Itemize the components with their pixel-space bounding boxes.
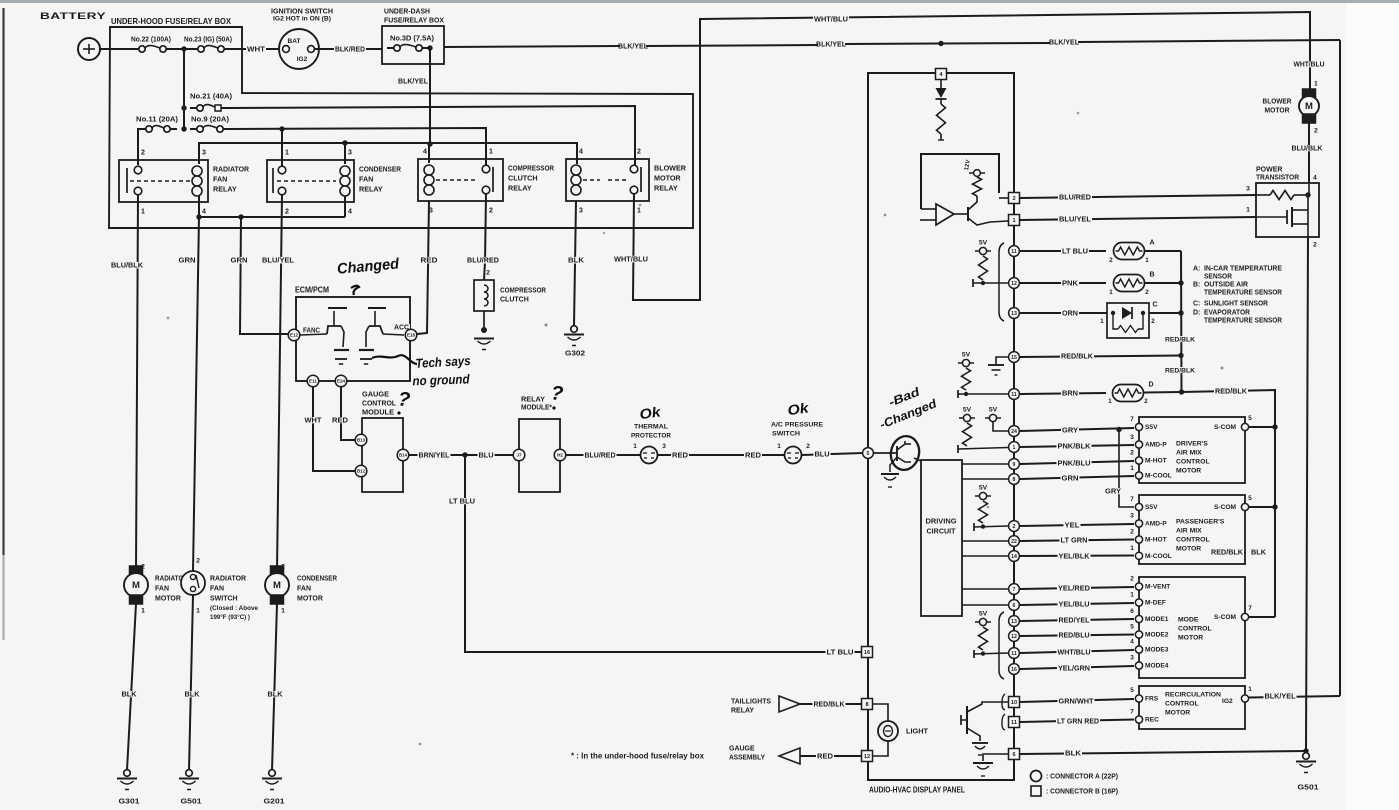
- svg-text:CLUTCH: CLUTCH: [508, 173, 538, 182]
- svg-text:1: 1: [1130, 465, 1134, 472]
- resistor inside power transistor: [1256, 194, 1270, 196]
- mode control motor: [1139, 577, 1245, 678]
- left page frame line: [2, 8, 4, 555]
- svg-text:H2: H2: [557, 453, 563, 458]
- wire compressor coil pin4 stub: [428, 144, 430, 163]
- wire BLK/YEL vertical to relay coils: [429, 48, 431, 144]
- svg-text:BLK: BLK: [1065, 749, 1082, 758]
- svg-text:11: 11: [1011, 249, 1017, 255]
- wire BLK condenser motor to G201: [272, 604, 277, 770]
- svg-text:FAN: FAN: [213, 174, 227, 183]
- svg-text:No.23 (IG) (50A): No.23 (IG) (50A): [184, 34, 233, 43]
- fuse No.21 (40A): [181, 105, 186, 110]
- svg-text:S-COM: S-COM: [1214, 614, 1236, 621]
- svg-text:RED/BLK: RED/BLK: [1165, 336, 1195, 343]
- svg-text:MODE1: MODE1: [1145, 616, 1169, 623]
- svg-text:YEL/BLK: YEL/BLK: [1059, 552, 1091, 561]
- svg-text:No.9 (20A): No.9 (20A): [191, 114, 230, 123]
- svg-text:PNK/BLK: PNK/BLK: [1058, 442, 1092, 451]
- svg-text:11: 11: [1011, 392, 1017, 398]
- svg-text:1: 1: [196, 607, 200, 614]
- svg-text:1: 1: [141, 208, 145, 215]
- svg-text:3: 3: [1130, 655, 1134, 662]
- svg-text:MOTOR: MOTOR: [1178, 634, 1203, 641]
- pin 16 YEL/GRN: [1009, 664, 1020, 675]
- wire RED compressor coil pin3 to ECM ACC: [417, 201, 429, 334]
- pin 16 square LT BLU: [862, 647, 873, 658]
- ground G501 left: [186, 770, 193, 777]
- pin 11 WHT/BLU: [1009, 648, 1020, 659]
- svg-text:8: 8: [1013, 477, 1016, 483]
- svg-text:MODULE: MODULE: [362, 407, 394, 416]
- pin 2 square BLU/RED: [1009, 193, 1020, 204]
- svg-text:MODE3: MODE3: [1145, 647, 1169, 654]
- pin 9 PNK/BLU: [1009, 459, 1020, 470]
- svg-text:YEL: YEL: [1065, 521, 1080, 530]
- svg-text:7: 7: [1130, 496, 1134, 503]
- connector B legend: [1031, 786, 1041, 796]
- svg-text:1: 1: [1100, 318, 1104, 325]
- svg-text:C:: C:: [1193, 300, 1200, 307]
- svg-text:No.21 (40A): No.21 (40A): [190, 91, 233, 100]
- svg-text:24: 24: [1011, 429, 1017, 435]
- pin 12 RED/BLU: [1009, 631, 1020, 642]
- svg-text:B:: B:: [1193, 281, 1200, 288]
- svg-text:11: 11: [1011, 651, 1017, 657]
- svg-text:1: 1: [1246, 206, 1250, 213]
- svg-text:5: 5: [1248, 495, 1252, 502]
- svg-text:G201: G201: [264, 796, 285, 805]
- pin 12 square: [862, 751, 873, 762]
- svg-text:RED: RED: [421, 256, 439, 265]
- svg-text:CONTROL: CONTROL: [1176, 458, 1210, 465]
- svg-text:COMPRESSOR: COMPRESSOR: [500, 287, 546, 294]
- wire RED thermal protector to A/C switch: [658, 454, 784, 456]
- svg-text:TRANSISTOR: TRANSISTOR: [1256, 174, 1299, 181]
- svg-text:CONDENSER: CONDENSER: [297, 575, 337, 582]
- svg-text:4: 4: [579, 148, 583, 155]
- svg-text:RADIATOR: RADIATOR: [210, 575, 246, 582]
- svg-text:BATTERY: BATTERY: [40, 11, 106, 21]
- svg-text:WHT/BLU: WHT/BLU: [614, 255, 648, 264]
- bracket pin 11: [1002, 714, 1005, 730]
- ground for pin 15: [996, 357, 1008, 364]
- svg-text:M-VENT: M-VENT: [1145, 584, 1170, 591]
- svg-text:POWER: POWER: [1256, 166, 1282, 173]
- wire BLK/YEL right edge drop: [1339, 40, 1341, 696]
- svg-text:FAN: FAN: [155, 585, 169, 592]
- wire battery to under-hood box: [100, 48, 139, 50]
- ground at pin 6: [983, 754, 1008, 761]
- wire sensor common RED/BLK vertical: [1180, 251, 1183, 392]
- pin 11 square LT GRN RED: [1009, 717, 1020, 728]
- wire condenser coil pin4 to bus: [344, 196, 346, 217]
- pin 8 GRN: [1009, 474, 1020, 485]
- svg-text:SUNLIGHT SENSOR: SUNLIGHT SENSOR: [1204, 300, 1268, 307]
- svg-text:M: M: [132, 580, 140, 591]
- recirc IG2 pin 1: [1241, 695, 1248, 702]
- svg-text:CONDENSER: CONDENSER: [359, 164, 402, 173]
- svg-text:RELAY: RELAY: [654, 183, 678, 192]
- svg-text:FRS: FRS: [1145, 696, 1159, 703]
- svg-text:No.22 (100A): No.22 (100A): [131, 34, 172, 43]
- svg-text:7: 7: [1130, 416, 1134, 423]
- pin 10 square GRN/WHT: [1009, 697, 1020, 708]
- evaporator temperature sensor D: [1113, 385, 1144, 402]
- wire relay coil supply BLK/YEL: [199, 143, 577, 164]
- svg-text:BLK/YEL: BLK/YEL: [618, 42, 648, 51]
- pin 12 PNK: [1009, 278, 1020, 289]
- svg-text:MOTOR: MOTOR: [1165, 709, 1190, 716]
- svg-text:4: 4: [1313, 174, 1317, 181]
- wire junction vertical feed: [183, 49, 185, 129]
- svg-text:SWITCH: SWITCH: [210, 595, 238, 602]
- svg-text:CONTROL: CONTROL: [1165, 700, 1199, 707]
- svg-text:3: 3: [579, 207, 583, 214]
- svg-text:Ok: Ok: [638, 403, 662, 422]
- svg-text:(Closed : Above: (Closed : Above: [210, 605, 258, 612]
- svg-text:MOTOR: MOTOR: [1176, 545, 1201, 552]
- svg-text:5V: 5V: [979, 239, 988, 246]
- svg-text:FUSE/RELAY BOX: FUSE/RELAY BOX: [384, 16, 444, 25]
- svg-text:ASSEMBLY: ASSEMBLY: [729, 754, 765, 761]
- svg-text:* : In the under-hood fuse/rel: * : In the under-hood fuse/relay box: [571, 752, 705, 761]
- svg-text:MOTOR: MOTOR: [297, 595, 323, 602]
- audio-hvac display panel outline: [868, 73, 1014, 780]
- svg-text:1: 1: [1130, 592, 1134, 599]
- svg-text:1: 1: [1248, 686, 1252, 693]
- svg-text:2: 2: [637, 148, 641, 155]
- svg-text:RADIATOR: RADIATOR: [213, 164, 250, 173]
- svg-text:AMD-P: AMD-P: [1145, 521, 1167, 528]
- svg-text:RELAY: RELAY: [213, 184, 237, 193]
- svg-text:2: 2: [1313, 241, 1317, 248]
- wire BLK panel to G501: [1020, 751, 1306, 754]
- svg-text:MODE2: MODE2: [1145, 632, 1169, 639]
- wire BLK radiator motor to G301: [127, 604, 136, 770]
- transistor Q1 FANC driver: [300, 334, 327, 335]
- svg-text:1: 1: [637, 207, 641, 214]
- svg-text:AUDIO-HVAC DISPLAY PANEL: AUDIO-HVAC DISPLAY PANEL: [869, 786, 965, 795]
- svg-text:PASSENGER'S: PASSENGER'S: [1176, 518, 1225, 525]
- svg-text:RED: RED: [672, 450, 688, 459]
- pin 22 LT GRN: [1009, 536, 1020, 547]
- fuse No.11 (20A): [135, 116, 179, 122]
- svg-text:RELAY: RELAY: [508, 183, 532, 192]
- svg-text:RECIRCULATION: RECIRCULATION: [1165, 691, 1221, 698]
- svg-text:?: ?: [397, 388, 411, 411]
- pin 7 YEL/RED: [1009, 584, 1020, 595]
- svg-text:IG2 HOT in ON (B): IG2 HOT in ON (B): [273, 15, 331, 22]
- svg-text:G501: G501: [1298, 782, 1319, 791]
- svg-text:GAUGE: GAUGE: [729, 745, 755, 752]
- pin 13 RED/YEL: [1009, 616, 1020, 627]
- pin E12 FANC: [288, 329, 300, 341]
- fuse No.9 (20A): [190, 116, 230, 122]
- svg-text:A/C PRESSURE: A/C PRESSURE: [771, 421, 823, 428]
- svg-text:2: 2: [1012, 196, 1015, 202]
- svg-text:RED/BLK: RED/BLK: [1061, 352, 1094, 361]
- svg-text:5: 5: [1248, 415, 1252, 422]
- svg-text:LT BLU: LT BLU: [827, 648, 854, 657]
- svg-text:13: 13: [1011, 619, 1017, 625]
- svg-text:TEMPERATURE SENSOR: TEMPERATURE SENSOR: [1204, 317, 1282, 324]
- svg-text:LT BLU: LT BLU: [1062, 247, 1088, 256]
- pin 11 BRN: [1009, 389, 1020, 400]
- svg-text:BLU: BLU: [815, 449, 830, 458]
- svg-text:IG2: IG2: [1222, 698, 1233, 705]
- svg-text:5V: 5V: [979, 484, 988, 491]
- svg-text:AMD-P: AMD-P: [1145, 442, 1167, 449]
- pin 15 RED/BLK: [1009, 352, 1020, 363]
- pin 6 square BLK: [1009, 749, 1020, 760]
- svg-text:IG2: IG2: [297, 56, 308, 63]
- svg-text:BLK/YEL: BLK/YEL: [1049, 38, 1079, 47]
- svg-text:2: 2: [1314, 127, 1318, 134]
- transistor Q2 ACC driver: [369, 326, 383, 334]
- transistor output stage: [967, 207, 969, 221]
- svg-text:M: M: [273, 580, 281, 591]
- transistor illumination driver: [960, 715, 962, 725]
- svg-text:1: 1: [1314, 80, 1318, 87]
- wire BLU/BLK radiator relay pin1 to motor: [136, 195, 138, 570]
- svg-text:PNK/BLU: PNK/BLU: [1058, 459, 1091, 468]
- svg-text:M-HOT: M-HOT: [1145, 537, 1167, 544]
- ground for transistor: [890, 457, 897, 472]
- svg-text:4: 4: [423, 148, 427, 155]
- svg-text:LT BLU: LT BLU: [449, 496, 475, 505]
- svg-text:10: 10: [1011, 700, 1017, 706]
- svg-text:D: D: [1148, 381, 1153, 388]
- pin 1 square BLU/YEL: [1009, 215, 1020, 226]
- transistor A/C request (hand circled): [874, 452, 897, 454]
- panel connector pin 11 LT BLU: [1009, 246, 1020, 257]
- svg-text:BAT: BAT: [288, 38, 301, 45]
- scan speckles: [545, 324, 548, 327]
- svg-text:TEMPERATURE SENSOR: TEMPERATURE SENSOR: [1204, 289, 1282, 296]
- svg-text:COMPRESSOR: COMPRESSOR: [508, 163, 555, 172]
- svg-text:EVAPORATOR: EVAPORATOR: [1204, 309, 1250, 316]
- wire BLK blower coil pin3 to G302: [574, 201, 576, 326]
- svg-text:BLK: BLK: [122, 689, 138, 698]
- svg-text:FANC: FANC: [303, 327, 320, 334]
- svg-text:ECM/PCM: ECM/PCM: [295, 286, 329, 295]
- svg-text:RED: RED: [817, 751, 833, 760]
- svg-text:?: ?: [550, 382, 564, 405]
- svg-text:9: 9: [1013, 462, 1016, 468]
- svg-text:MOTOR: MOTOR: [155, 595, 181, 602]
- fuse No.3D (7.5A): [389, 35, 435, 41]
- ground for illumination transistor: [972, 742, 988, 744]
- svg-text:ORN: ORN: [1062, 309, 1078, 318]
- svg-text:MOTOR: MOTOR: [1176, 467, 1201, 474]
- wire BLU/RED compressor relay pin2 to clutch: [484, 194, 486, 280]
- sunlight sensor C: [1107, 303, 1149, 338]
- light bulb: [873, 704, 888, 721]
- svg-text:6: 6: [1130, 608, 1134, 615]
- svg-text:2: 2: [806, 443, 810, 450]
- svg-text:4: 4: [202, 208, 206, 215]
- svg-text:MODE4: MODE4: [1145, 663, 1169, 670]
- svg-text:RED: RED: [745, 450, 761, 459]
- svg-text:LT GRN RED: LT GRN RED: [1057, 717, 1100, 726]
- passenger's air mix control motor: [1139, 495, 1245, 564]
- svg-text:199°F (93°C) ): 199°F (93°C) ): [210, 613, 250, 621]
- node GRY branch: [1116, 427, 1121, 432]
- wire BLU/YEL condenser relay pin2 to motor: [277, 195, 282, 570]
- wire radiator coil pin4 to bus: [198, 196, 200, 217]
- svg-text:BLK: BLK: [1251, 548, 1267, 557]
- pin B12: [355, 465, 367, 477]
- svg-text:2: 2: [1109, 257, 1113, 264]
- svg-text:1: 1: [1108, 398, 1112, 405]
- svg-text:No.11 (20A): No.11 (20A): [136, 114, 179, 123]
- wire clutch to ground: [483, 311, 485, 329]
- pin 2 YEL: [1009, 521, 1020, 532]
- svg-text:CONTROL: CONTROL: [1176, 536, 1210, 543]
- wire RED/BLK to S-COM rail: [1182, 390, 1276, 617]
- wire BRN/YEL B14 to junction: [409, 454, 463, 456]
- svg-text:1: 1: [489, 148, 493, 155]
- svg-text:RED/BLK: RED/BLK: [1211, 548, 1244, 557]
- svg-text:WHT/BLU: WHT/BLU: [1294, 59, 1325, 68]
- svg-text:UNDER-DASH: UNDER-DASH: [384, 7, 430, 16]
- svg-text:MODULE*: MODULE*: [521, 402, 552, 411]
- svg-text:BLU/BLK: BLU/BLK: [1292, 143, 1324, 152]
- svg-text:G501: G501: [181, 796, 202, 805]
- wire BLK/YEL recirc to right rail: [1249, 696, 1340, 698]
- svg-text:WHT/BLU: WHT/BLU: [814, 15, 848, 24]
- handwritten Tech says no ground: [372, 355, 417, 364]
- svg-text:BLU/RED: BLU/RED: [585, 450, 616, 459]
- svg-text:A: A: [1149, 239, 1154, 246]
- svg-text:7: 7: [1013, 587, 1016, 593]
- pin 24 GRY: [1009, 426, 1020, 437]
- svg-text:1: 1: [1013, 445, 1016, 451]
- node G501 junction: [1303, 748, 1308, 753]
- svg-text:BLK/YEL: BLK/YEL: [398, 77, 428, 86]
- compressor clutch relay: [418, 159, 503, 201]
- blower motor: [1293, 61, 1326, 67]
- svg-text:2: 2: [196, 557, 200, 564]
- pin E24: [335, 375, 347, 387]
- svg-text:7: 7: [1130, 709, 1134, 716]
- svg-text:5V: 5V: [979, 610, 988, 617]
- svg-text:BLU/BLK: BLU/BLK: [111, 261, 144, 270]
- svg-text:11: 11: [1011, 720, 1017, 726]
- svg-text:7: 7: [1248, 605, 1252, 612]
- svg-text:GAUGE: GAUGE: [362, 389, 389, 398]
- driver S-COM pin 5: [1241, 423, 1248, 430]
- pin 1 PNK/BLK: [1009, 442, 1020, 453]
- wire BLU A/C switch to panel pin 5: [802, 453, 863, 455]
- svg-text:3: 3: [1246, 185, 1250, 192]
- svg-text:1: 1: [633, 443, 637, 450]
- pin B13: [355, 434, 367, 446]
- svg-text:FAN: FAN: [297, 585, 311, 592]
- wire WHT E11 to gauge module B12: [313, 387, 355, 471]
- svg-text:IN-CAR TEMPERATURE: IN-CAR TEMPERATURE: [1204, 265, 1282, 272]
- svg-text:BLOWER: BLOWER: [1263, 98, 1292, 105]
- node LT BLU junction: [462, 452, 467, 457]
- svg-text:AIR MIX: AIR MIX: [1176, 449, 1202, 456]
- svg-text:14: 14: [1011, 554, 1017, 560]
- svg-text:BLU/YEL: BLU/YEL: [262, 256, 294, 265]
- connector A legend: [1031, 771, 1042, 782]
- wire BLK power transistor pin2 down: [1308, 183, 1310, 195]
- pin 4 square on panel top: [936, 69, 947, 80]
- svg-text:16: 16: [1011, 667, 1017, 673]
- svg-text:3: 3: [1130, 434, 1134, 441]
- wire BLK/RED to under-dash box: [315, 48, 382, 50]
- svg-text:BLU/YEL: BLU/YEL: [1059, 215, 1091, 224]
- wire BLU junction to relay module J7: [465, 454, 513, 456]
- node BLK/YEL junction under-dash: [427, 45, 432, 50]
- svg-text:GRN: GRN: [231, 256, 248, 265]
- wire RED E24 to gauge module B13: [341, 387, 355, 440]
- svg-text:BLK/YEL: BLK/YEL: [816, 40, 846, 49]
- wire GRN to ECM FANC: [240, 217, 288, 334]
- pin J7: [513, 449, 525, 461]
- pin 13 ORN: [1009, 308, 1020, 319]
- svg-text:G302: G302: [565, 350, 585, 357]
- svg-text:Ok: Ok: [786, 399, 810, 418]
- connector brace pins 11-13: [999, 243, 1004, 321]
- pin H2: [554, 449, 566, 461]
- svg-text:3: 3: [662, 443, 666, 450]
- condenser fan relay: [267, 160, 354, 202]
- wire GRY to passenger S5V: [1119, 430, 1134, 508]
- svg-text:2: 2: [1144, 398, 1148, 405]
- svg-text:YEL/RED: YEL/RED: [1058, 584, 1091, 593]
- svg-text:M-COOL: M-COOL: [1145, 553, 1172, 560]
- wire LT BLU down and across to panel pin 16: [465, 455, 861, 652]
- svg-text:BLK/RED: BLK/RED: [335, 45, 366, 54]
- wire GRN to radiator fan switch: [193, 217, 199, 571]
- svg-text:3: 3: [348, 149, 352, 156]
- svg-text:5: 5: [1130, 687, 1134, 694]
- wire relay ground bus: [199, 216, 345, 218]
- svg-text:BLK: BLK: [568, 256, 585, 265]
- svg-text:M-DEF: M-DEF: [1145, 600, 1166, 607]
- svg-text:CONTROL: CONTROL: [1178, 625, 1212, 632]
- svg-text:E12: E12: [290, 333, 299, 338]
- svg-text:S5V: S5V: [1145, 504, 1158, 511]
- svg-text:WHT: WHT: [305, 415, 323, 424]
- svg-text:RED/BLU: RED/BLU: [1059, 631, 1090, 640]
- svg-text:SWITCH: SWITCH: [772, 430, 800, 437]
- svg-text:RED: RED: [332, 415, 348, 424]
- svg-text:GRN: GRN: [1062, 474, 1079, 483]
- wire BLU/RED to power transistor pin 3: [999, 197, 1008, 199]
- ground G301: [124, 770, 131, 777]
- svg-text:S5V: S5V: [1145, 424, 1158, 431]
- bracket pin 10: [1002, 694, 1005, 710]
- svg-text:RELAY: RELAY: [731, 707, 754, 714]
- svg-text:1: 1: [1145, 257, 1149, 264]
- node No.9 junction: [181, 126, 186, 131]
- svg-text:15: 15: [1011, 355, 1017, 361]
- connector brace pins 13-16: [999, 612, 1004, 679]
- wire No.9 to compressor relay pin 1: [230, 128, 486, 165]
- svg-text:5V: 5V: [963, 406, 972, 413]
- svg-text:UNDER-HOOD FUSE/RELAY BOX: UNDER-HOOD FUSE/RELAY BOX: [111, 17, 231, 26]
- passenger S-COM pin 5: [1241, 503, 1248, 510]
- svg-text:8: 8: [865, 702, 868, 708]
- svg-text:1: 1: [281, 607, 285, 614]
- svg-text:LIGHT: LIGHT: [906, 728, 929, 735]
- relay radiator fan: [119, 160, 208, 202]
